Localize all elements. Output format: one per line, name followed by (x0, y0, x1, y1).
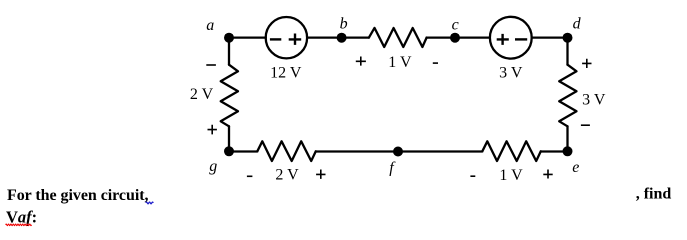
svg-text:b: b (340, 16, 348, 33)
svg-text:For the given circuit,: For the given circuit, (7, 187, 149, 204)
svg-text:, find: , find (636, 186, 672, 203)
svg-text:a: a (206, 17, 214, 34)
svg-text:f: f (389, 160, 396, 177)
svg-text:1 V: 1 V (499, 167, 523, 184)
svg-text:c: c (452, 17, 459, 34)
svg-text:1 V: 1 V (388, 54, 412, 71)
svg-text:2 V: 2 V (275, 167, 299, 184)
svg-text:12 V: 12 V (270, 64, 302, 81)
svg-text:2 V: 2 V (190, 86, 214, 103)
svg-text:3 V: 3 V (499, 64, 523, 81)
svg-text:g: g (209, 158, 217, 175)
svg-text:d: d (573, 16, 582, 33)
svg-text:3 V: 3 V (582, 92, 606, 109)
svg-text:e: e (572, 159, 579, 176)
